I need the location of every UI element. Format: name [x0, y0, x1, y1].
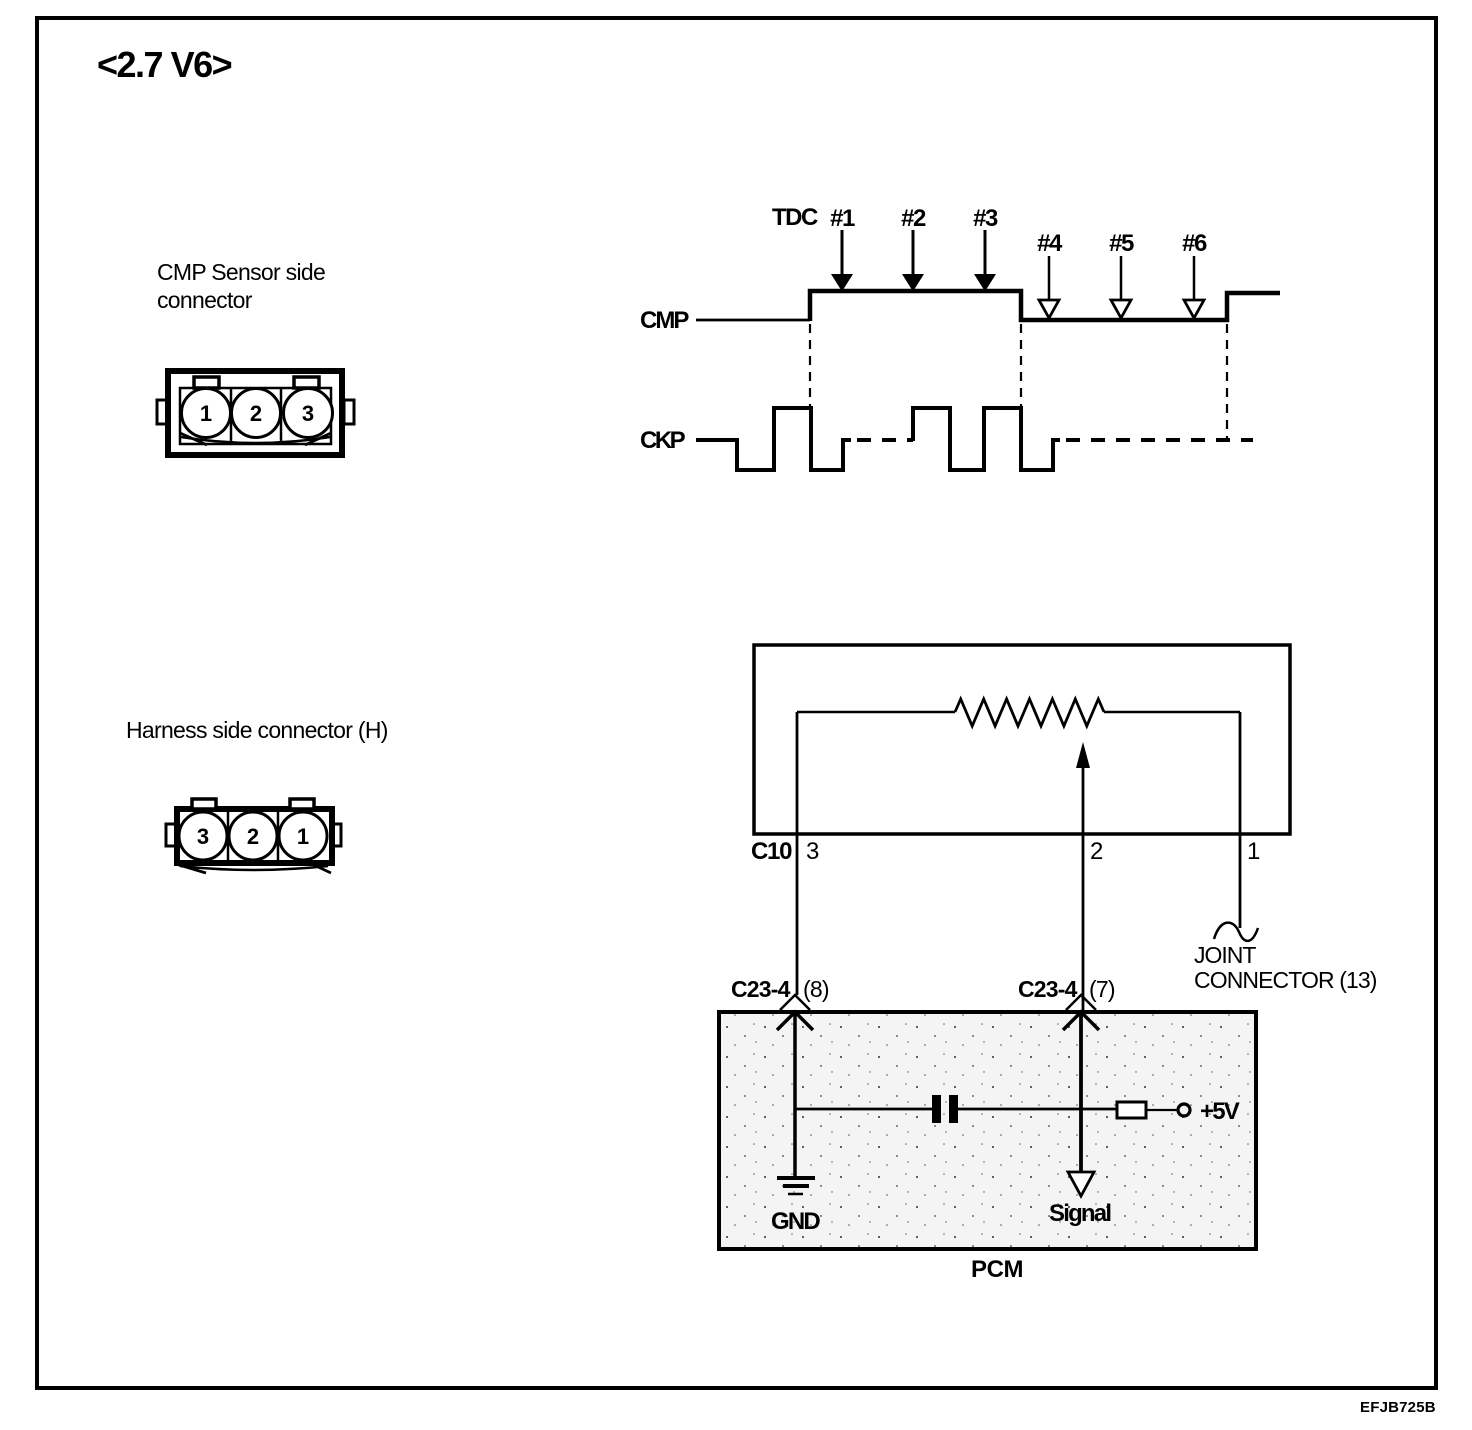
svg-text:1: 1 [297, 824, 309, 849]
svg-text:#2: #2 [901, 205, 926, 232]
CMP waveform trace [696, 291, 1280, 321]
wire: horizontal to capacitor [795, 1108, 933, 1111]
svg-text:2: 2 [247, 824, 259, 849]
signal arrow (open triangle) [1068, 1172, 1094, 1196]
wiper arrow (pin 2) [1076, 742, 1090, 1012]
ground symbol [777, 1178, 815, 1194]
hollow arrow #5 [1111, 256, 1131, 318]
wire: sensor internal horizontal [797, 711, 955, 714]
svg-text:C23-4: C23-4 [1018, 976, 1078, 1002]
timing diagram labels TDC #1..#6 [772, 204, 1207, 257]
resistor (pull-up box) [1117, 1102, 1146, 1118]
filled arrow #3 [974, 230, 996, 292]
svg-text:#3: #3 [973, 205, 998, 232]
svg-text:3: 3 [197, 824, 209, 849]
svg-text:#1: #1 [830, 205, 855, 232]
PCM box [719, 1012, 1256, 1249]
dashed vertical line at CMP second rise [1226, 324, 1228, 438]
connector CMP-sensor-side (pins 1 2 3) [157, 371, 354, 455]
svg-text:#5: #5 [1109, 230, 1134, 257]
dashed vertical line at CMP rise [809, 324, 811, 407]
wire: capacitor to resistor [958, 1108, 1117, 1111]
svg-text:1: 1 [1247, 838, 1260, 865]
svg-text:#6: #6 [1182, 230, 1207, 257]
capacitor C [932, 1095, 958, 1123]
CKP dashed segments [857, 438, 1253, 442]
svg-text:<2.7 V6>: <2.7 V6> [97, 44, 232, 85]
svg-text:TDC: TDC [772, 204, 818, 231]
wire: resistor to pin 1 [1104, 711, 1240, 714]
svg-text:2: 2 [1090, 838, 1103, 865]
pin numbers 1 2 3 [200, 401, 314, 426]
svg-text:C10: C10 [751, 838, 792, 865]
dashed vertical line at CMP fall [1020, 324, 1022, 407]
connector harness-side (pins 3 2 1) [166, 799, 341, 873]
svg-text:connector: connector [157, 287, 253, 313]
wire: resistor to +5V terminal [1146, 1109, 1177, 1111]
svg-text:CMP: CMP [640, 307, 689, 334]
hollow arrow #6 [1184, 256, 1204, 318]
svg-text:CMP Sensor side: CMP Sensor side [157, 259, 325, 285]
svg-text:(8): (8) [803, 976, 829, 1002]
joint connector break squiggle [1214, 923, 1258, 941]
pin numbers 3 2 1 [197, 824, 309, 849]
filled arrow #2 [902, 230, 924, 292]
svg-text:EFJB725B: EFJB725B [1360, 1399, 1436, 1416]
wire: pin 3 vertical (sensor ground) [796, 712, 799, 995]
connector chevrons C23-4 (8) [777, 995, 813, 1030]
wire: Signal vertical inside PCM [1079, 1012, 1083, 1171]
svg-text:GND: GND [771, 1208, 820, 1235]
wire: GND vertical inside PCM [793, 1012, 797, 1177]
CKP waveform trace (solid parts) [696, 408, 1060, 470]
filled arrow #1 [831, 230, 853, 292]
resistor (sensor element) [955, 699, 1104, 726]
CMP sensor internal box [754, 645, 1290, 834]
wire: pin 1 vertical to joint connector [1239, 712, 1242, 928]
svg-text:3: 3 [302, 401, 314, 426]
svg-text:C23-4: C23-4 [731, 976, 791, 1002]
svg-text:2: 2 [250, 401, 262, 426]
svg-text:1: 1 [200, 401, 212, 426]
svg-text:+5V: +5V [1200, 1098, 1240, 1125]
svg-text:Signal: Signal [1049, 1200, 1110, 1227]
svg-text:PCM: PCM [971, 1256, 1023, 1283]
svg-text:CKP: CKP [640, 427, 686, 454]
svg-text:(7): (7) [1089, 976, 1115, 1002]
+5V terminal circle [1178, 1104, 1190, 1116]
svg-text:3: 3 [806, 838, 819, 865]
connector chevrons C23-4 (7) [1063, 995, 1099, 1030]
svg-text:JOINT: JOINT [1194, 942, 1256, 968]
svg-text:#4: #4 [1037, 230, 1063, 257]
svg-text:CONNECTOR (13): CONNECTOR (13) [1194, 967, 1377, 993]
hollow arrow #4 [1039, 256, 1059, 318]
svg-text:Harness side connector (H): Harness side connector (H) [126, 717, 388, 743]
